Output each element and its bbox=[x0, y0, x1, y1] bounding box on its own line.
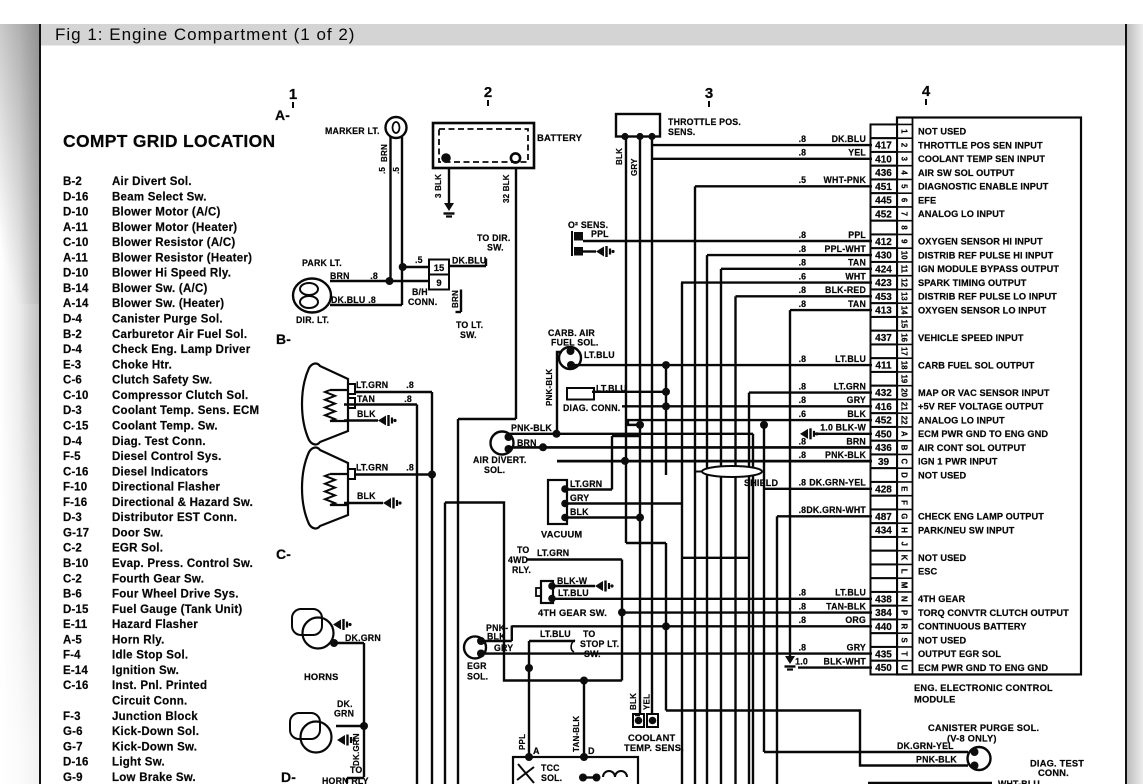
svg-text:TO DIR.: TO DIR. bbox=[477, 233, 511, 243]
svg-text:TO LT.: TO LT. bbox=[456, 320, 483, 330]
svg-text:LT.GRN: LT.GRN bbox=[834, 381, 866, 391]
svg-text:LT.GRN: LT.GRN bbox=[570, 479, 602, 489]
svg-text:C-: C- bbox=[276, 546, 291, 562]
svg-text:CANISTER PURGE SOL.: CANISTER PURGE SOL. bbox=[928, 723, 1039, 733]
svg-text:DK.BLU: DK.BLU bbox=[331, 295, 365, 305]
svg-text:EFE: EFE bbox=[918, 195, 936, 205]
svg-text:451: 451 bbox=[875, 182, 892, 193]
svg-text:13: 13 bbox=[900, 292, 909, 301]
svg-text:PPL: PPL bbox=[848, 230, 866, 240]
svg-text:Blower Motor (Heater): Blower Motor (Heater) bbox=[112, 222, 237, 234]
svg-text:.8: .8 bbox=[799, 601, 806, 611]
svg-text:PARK/NEU SW INPUT: PARK/NEU SW INPUT bbox=[918, 525, 1015, 535]
svg-text:AIR CONT SOL OUTPUT: AIR CONT SOL OUTPUT bbox=[918, 443, 1026, 453]
svg-text:DK.GRN: DK.GRN bbox=[345, 633, 381, 643]
svg-text:DK.GRN-YEL: DK.GRN-YEL bbox=[809, 478, 866, 488]
svg-text:PPL: PPL bbox=[518, 734, 527, 750]
svg-text:F-3: F-3 bbox=[63, 711, 81, 723]
svg-text:DK.GRN-WHT: DK.GRN-WHT bbox=[806, 505, 866, 515]
svg-text:Choke Htr.: Choke Htr. bbox=[112, 359, 172, 371]
svg-text:C-10: C-10 bbox=[63, 390, 89, 402]
svg-text:410: 410 bbox=[875, 154, 892, 165]
svg-text:20: 20 bbox=[900, 388, 909, 397]
svg-text:416: 416 bbox=[875, 402, 892, 413]
svg-text:.8: .8 bbox=[799, 354, 806, 364]
svg-text:Blower Sw. (A/C): Blower Sw. (A/C) bbox=[112, 283, 208, 295]
svg-text:Carburetor Air Fuel Sol.: Carburetor Air Fuel Sol. bbox=[112, 329, 247, 341]
svg-text:B-: B- bbox=[276, 331, 291, 347]
svg-text:MODULE: MODULE bbox=[914, 695, 955, 705]
svg-text:SPARK TIMING OUTPUT: SPARK TIMING OUTPUT bbox=[918, 278, 1027, 288]
svg-text:Low Brake Sw.: Low Brake Sw. bbox=[112, 772, 196, 784]
svg-text:B-14: B-14 bbox=[63, 283, 89, 295]
svg-text:.8: .8 bbox=[799, 285, 806, 295]
svg-text:.8: .8 bbox=[799, 642, 806, 652]
svg-text:A-: A- bbox=[275, 107, 290, 123]
svg-text:Blower Hi Speed Rly.: Blower Hi Speed Rly. bbox=[112, 268, 231, 280]
svg-text:TO: TO bbox=[350, 765, 362, 775]
svg-text:11: 11 bbox=[900, 265, 909, 274]
svg-text:DISTRIB REF PULSE HI INPUT: DISTRIB REF PULSE HI INPUT bbox=[918, 250, 1054, 260]
svg-text:Canister Purge Sol.: Canister Purge Sol. bbox=[112, 314, 223, 326]
svg-text:B-6: B-6 bbox=[63, 589, 82, 601]
svg-text:DK.GRN: DK.GRN bbox=[352, 733, 361, 766]
svg-text:K: K bbox=[900, 555, 909, 561]
svg-text:1.0: 1.0 bbox=[795, 656, 808, 666]
svg-text:CARB FUEL SOL OUTPUT: CARB FUEL SOL OUTPUT bbox=[918, 360, 1035, 370]
svg-text:22: 22 bbox=[900, 416, 909, 425]
svg-text:15: 15 bbox=[900, 319, 909, 328]
svg-text:STOP LT.: STOP LT. bbox=[580, 639, 619, 649]
svg-text:G: G bbox=[900, 513, 909, 519]
svg-text:BLK: BLK bbox=[847, 409, 866, 419]
svg-text:Fig 1: Engine Compartment (1 o: Fig 1: Engine Compartment (1 of 2) bbox=[55, 25, 355, 44]
svg-text:5: 5 bbox=[900, 184, 909, 189]
svg-text:10: 10 bbox=[900, 251, 909, 260]
svg-text:PPL: PPL bbox=[591, 229, 609, 239]
svg-text:6: 6 bbox=[900, 198, 909, 203]
svg-text:9: 9 bbox=[436, 278, 441, 289]
svg-text:GRY: GRY bbox=[630, 158, 639, 176]
svg-text:417: 417 bbox=[875, 141, 892, 152]
svg-text:CONN.: CONN. bbox=[1038, 768, 1069, 778]
svg-text:12: 12 bbox=[900, 278, 909, 287]
svg-text:BLK: BLK bbox=[615, 148, 624, 165]
svg-text:P: P bbox=[900, 610, 909, 615]
svg-text:450: 450 bbox=[875, 429, 892, 440]
svg-text:DK.BLU: DK.BLU bbox=[452, 256, 486, 266]
svg-text:NOT USED: NOT USED bbox=[918, 553, 967, 563]
svg-text:D-: D- bbox=[281, 769, 296, 784]
svg-text:487: 487 bbox=[875, 512, 892, 523]
svg-text:Compressor Clutch Sol.: Compressor Clutch Sol. bbox=[112, 390, 249, 402]
svg-text:32 BLK: 32 BLK bbox=[502, 174, 511, 203]
svg-text:HORN RLY: HORN RLY bbox=[322, 776, 369, 784]
svg-text:TAN: TAN bbox=[848, 258, 866, 268]
svg-text:1: 1 bbox=[289, 86, 297, 103]
svg-text:G-17: G-17 bbox=[63, 527, 89, 539]
svg-text:14: 14 bbox=[900, 306, 909, 315]
svg-text:Coolant Temp. Sw.: Coolant Temp. Sw. bbox=[112, 420, 218, 432]
svg-text:TAN-BLK: TAN-BLK bbox=[572, 716, 581, 752]
svg-text:Blower Resistor (Heater): Blower Resistor (Heater) bbox=[112, 252, 252, 264]
svg-text:CONTINUOUS BATTERY: CONTINUOUS BATTERY bbox=[918, 622, 1026, 632]
svg-text:EGR: EGR bbox=[467, 661, 487, 671]
svg-text:436: 436 bbox=[875, 443, 892, 454]
svg-text:452: 452 bbox=[875, 416, 892, 427]
svg-text:ANALOG LO INPUT: ANALOG LO INPUT bbox=[918, 209, 1005, 219]
svg-text:D-16: D-16 bbox=[63, 191, 89, 203]
svg-text:Check Eng. Lamp Driver: Check Eng. Lamp Driver bbox=[112, 344, 251, 356]
svg-text:.8: .8 bbox=[799, 436, 806, 446]
svg-text:A-5: A-5 bbox=[63, 634, 82, 646]
svg-text:VEHICLE SPEED INPUT: VEHICLE SPEED INPUT bbox=[918, 333, 1024, 343]
svg-text:NOT USED: NOT USED bbox=[918, 635, 967, 645]
svg-text:445: 445 bbox=[875, 196, 892, 207]
svg-text:DIAGNOSTIC ENABLE INPUT: DIAGNOSTIC ENABLE INPUT bbox=[918, 182, 1049, 192]
svg-text:.8: .8 bbox=[799, 381, 806, 391]
svg-text:THROTTLE POS SEN INPUT: THROTTLE POS SEN INPUT bbox=[918, 140, 1043, 150]
svg-text:C-2: C-2 bbox=[63, 573, 82, 585]
svg-text:.8: .8 bbox=[406, 463, 414, 473]
svg-text:17: 17 bbox=[900, 347, 909, 356]
svg-text:LT.BLU: LT.BLU bbox=[558, 588, 589, 598]
svg-text:BLK: BLK bbox=[570, 507, 589, 517]
svg-text:450: 450 bbox=[875, 663, 892, 674]
svg-text:IGN 1 PWR INPUT: IGN 1 PWR INPUT bbox=[918, 457, 998, 467]
svg-text:452: 452 bbox=[875, 209, 892, 220]
svg-text:F-16: F-16 bbox=[63, 497, 87, 509]
svg-text:NOT USED: NOT USED bbox=[918, 470, 967, 480]
svg-text:D-3: D-3 bbox=[63, 405, 82, 417]
svg-text:G-7: G-7 bbox=[63, 741, 83, 753]
svg-text:Evap. Press. Control Sw.: Evap. Press. Control Sw. bbox=[112, 558, 253, 570]
svg-text:BLK-WHT: BLK-WHT bbox=[824, 656, 867, 666]
svg-text:LT.BLU: LT.BLU bbox=[835, 588, 866, 598]
svg-text:.8: .8 bbox=[799, 478, 806, 488]
svg-text:GRY: GRY bbox=[847, 395, 866, 405]
svg-text:F-4: F-4 bbox=[63, 650, 81, 662]
svg-text:.8: .8 bbox=[404, 394, 412, 404]
svg-text:SOL.: SOL. bbox=[541, 773, 562, 783]
svg-text:OXYGEN SENSOR LO INPUT: OXYGEN SENSOR LO INPUT bbox=[918, 305, 1047, 315]
svg-text:M: M bbox=[900, 582, 909, 589]
svg-text:3 BLK: 3 BLK bbox=[434, 174, 443, 198]
svg-text:411: 411 bbox=[875, 361, 892, 372]
svg-text:.8: .8 bbox=[799, 505, 806, 515]
svg-text:.8: .8 bbox=[799, 134, 806, 144]
svg-text:3: 3 bbox=[900, 157, 909, 162]
svg-text:FUEL SOL.: FUEL SOL. bbox=[551, 337, 599, 347]
svg-text:B: B bbox=[900, 445, 909, 451]
svg-text:3: 3 bbox=[705, 85, 713, 102]
svg-text:.8: .8 bbox=[370, 271, 378, 281]
svg-text:SOL.: SOL. bbox=[467, 672, 488, 682]
svg-text:EGR Sol.: EGR Sol. bbox=[112, 543, 163, 555]
svg-text:7: 7 bbox=[900, 212, 909, 216]
svg-text:.8: .8 bbox=[799, 230, 806, 240]
svg-text:N: N bbox=[900, 596, 909, 602]
svg-text:BLK: BLK bbox=[629, 693, 638, 710]
svg-text:B-10: B-10 bbox=[63, 558, 89, 570]
svg-text:BRN: BRN bbox=[380, 144, 389, 162]
svg-text:TAN: TAN bbox=[357, 394, 375, 404]
svg-text:BRN: BRN bbox=[451, 290, 460, 308]
svg-text:E-14: E-14 bbox=[63, 665, 88, 677]
svg-text:440: 440 bbox=[875, 622, 892, 633]
svg-text:YEL: YEL bbox=[643, 694, 652, 710]
svg-text:Inst. Pnl. Printed: Inst. Pnl. Printed bbox=[112, 680, 207, 692]
svg-text:J: J bbox=[900, 542, 909, 546]
svg-text:MAP OR VAC SENSOR INPUT: MAP OR VAC SENSOR INPUT bbox=[918, 388, 1050, 398]
svg-text:8: 8 bbox=[900, 225, 909, 230]
svg-text:423: 423 bbox=[875, 278, 892, 289]
svg-text:NOT USED: NOT USED bbox=[918, 127, 967, 137]
svg-text:4TH GEAR: 4TH GEAR bbox=[918, 594, 966, 604]
svg-text:.8: .8 bbox=[799, 450, 806, 460]
svg-text:A: A bbox=[900, 431, 909, 437]
svg-text:.8: .8 bbox=[799, 148, 806, 158]
svg-text:ECM PWR GND TO ENG GND: ECM PWR GND TO ENG GND bbox=[918, 663, 1048, 673]
svg-text:.8: .8 bbox=[799, 299, 806, 309]
svg-text:A: A bbox=[533, 746, 540, 756]
svg-text:OXYGEN SENSOR HI INPUT: OXYGEN SENSOR HI INPUT bbox=[918, 237, 1043, 247]
svg-text:412: 412 bbox=[875, 237, 892, 248]
svg-text:A-11: A-11 bbox=[63, 252, 88, 264]
svg-text:Ignition Sw.: Ignition Sw. bbox=[112, 665, 179, 677]
svg-text:1.0 BLK-W: 1.0 BLK-W bbox=[820, 423, 866, 433]
svg-text:AIR DIVERT.: AIR DIVERT. bbox=[473, 455, 527, 465]
svg-text:.5: .5 bbox=[392, 167, 401, 174]
svg-text:39: 39 bbox=[878, 457, 890, 468]
svg-text:D-16: D-16 bbox=[63, 757, 89, 769]
svg-text:LT.BLU: LT.BLU bbox=[540, 629, 571, 639]
svg-text:C-16: C-16 bbox=[63, 466, 89, 478]
svg-text:Idle Stop Sol.: Idle Stop Sol. bbox=[112, 650, 188, 662]
svg-text:Hazard Flasher: Hazard Flasher bbox=[112, 619, 198, 631]
svg-text:PARK LT.: PARK LT. bbox=[302, 258, 342, 268]
svg-text:B/H: B/H bbox=[412, 287, 428, 297]
svg-text:CONN.: CONN. bbox=[408, 297, 437, 307]
svg-text:F: F bbox=[900, 500, 909, 505]
svg-text:D: D bbox=[588, 746, 595, 756]
svg-text:.8: .8 bbox=[368, 295, 376, 305]
svg-text:SHIELD: SHIELD bbox=[744, 478, 779, 488]
svg-text:9: 9 bbox=[900, 239, 909, 244]
svg-text:Directional Flasher: Directional Flasher bbox=[112, 482, 221, 494]
svg-text:THROTTLE POS.: THROTTLE POS. bbox=[668, 117, 741, 127]
svg-text:436: 436 bbox=[875, 168, 892, 179]
svg-text:TAN: TAN bbox=[848, 299, 866, 309]
svg-text:.8: .8 bbox=[799, 244, 806, 254]
svg-text:MARKER LT.: MARKER LT. bbox=[325, 126, 380, 136]
svg-text:DISTRIB REF PULSE LO INPUT: DISTRIB REF PULSE LO INPUT bbox=[918, 292, 1057, 302]
svg-text:WHT-PNK: WHT-PNK bbox=[824, 175, 867, 185]
svg-text:LT.BLU: LT.BLU bbox=[835, 354, 866, 364]
svg-text:COOLANT: COOLANT bbox=[628, 733, 675, 743]
svg-text:F-10: F-10 bbox=[63, 482, 87, 494]
svg-text:F-5: F-5 bbox=[63, 451, 81, 463]
svg-text:D-4: D-4 bbox=[63, 344, 82, 356]
svg-text:C-15: C-15 bbox=[63, 420, 89, 432]
svg-text:.8: .8 bbox=[406, 380, 414, 390]
svg-text:Diag. Test Conn.: Diag. Test Conn. bbox=[112, 436, 206, 448]
svg-text:LT.GRN: LT.GRN bbox=[356, 463, 388, 473]
svg-text:Door Sw.: Door Sw. bbox=[112, 527, 163, 539]
svg-text:TO: TO bbox=[517, 545, 529, 555]
svg-text:.5: .5 bbox=[378, 167, 387, 174]
svg-text:18: 18 bbox=[900, 361, 909, 370]
svg-text:H: H bbox=[900, 527, 909, 533]
svg-text:BLK: BLK bbox=[357, 409, 376, 419]
svg-text:1: 1 bbox=[900, 129, 909, 134]
svg-text:BATTERY: BATTERY bbox=[537, 133, 583, 144]
svg-text:DIAG. CONN.: DIAG. CONN. bbox=[563, 403, 620, 413]
svg-text:G-9: G-9 bbox=[63, 772, 83, 784]
svg-text:WHT: WHT bbox=[845, 271, 866, 281]
svg-text:BLK-W: BLK-W bbox=[557, 576, 588, 586]
svg-text:E-11: E-11 bbox=[63, 619, 88, 631]
svg-text:D-4: D-4 bbox=[63, 314, 82, 326]
svg-text:Directional & Hazard Sw.: Directional & Hazard Sw. bbox=[112, 497, 253, 509]
svg-text:E-3: E-3 bbox=[63, 359, 81, 371]
svg-text:GRY: GRY bbox=[570, 493, 589, 503]
svg-text:D-15: D-15 bbox=[63, 604, 89, 616]
svg-text:COMPT GRID LOCATION: COMPT GRID LOCATION bbox=[63, 131, 275, 151]
svg-text:4: 4 bbox=[922, 83, 931, 100]
svg-text:Circuit Conn.: Circuit Conn. bbox=[112, 696, 187, 708]
svg-text:LT.BLU: LT.BLU bbox=[584, 350, 615, 360]
svg-text:U: U bbox=[900, 665, 909, 671]
svg-text:Air Divert Sol.: Air Divert Sol. bbox=[112, 176, 192, 188]
svg-text:D-3: D-3 bbox=[63, 512, 82, 524]
svg-text:G-6: G-6 bbox=[63, 726, 83, 738]
svg-text:434: 434 bbox=[875, 526, 892, 537]
svg-text:VACUUM: VACUUM bbox=[541, 530, 582, 540]
svg-text:4: 4 bbox=[900, 170, 909, 175]
svg-text:WHT-BLU: WHT-BLU bbox=[998, 779, 1040, 784]
svg-text:AIR SW SOL OUTPUT: AIR SW SOL OUTPUT bbox=[918, 168, 1015, 178]
svg-text:Light Sw.: Light Sw. bbox=[112, 757, 165, 769]
svg-text:COOLANT TEMP SEN INPUT: COOLANT TEMP SEN INPUT bbox=[918, 154, 1045, 164]
svg-text:GRY: GRY bbox=[494, 643, 513, 653]
svg-text:438: 438 bbox=[875, 594, 892, 605]
svg-text:19: 19 bbox=[900, 374, 909, 383]
svg-text:Blower Resistor (A/C): Blower Resistor (A/C) bbox=[112, 237, 235, 249]
svg-text:PNK-BLK: PNK-BLK bbox=[511, 423, 552, 433]
svg-text:430: 430 bbox=[875, 251, 892, 262]
svg-text:Distributor EST Conn.: Distributor EST Conn. bbox=[112, 512, 237, 524]
svg-text:.5: .5 bbox=[415, 255, 423, 265]
svg-text:4TH GEAR SW.: 4TH GEAR SW. bbox=[538, 608, 607, 618]
svg-text:T: T bbox=[900, 651, 909, 656]
svg-text:PNK-BLK: PNK-BLK bbox=[916, 755, 957, 765]
svg-text:413: 413 bbox=[875, 306, 892, 317]
svg-text:C-2: C-2 bbox=[63, 543, 82, 555]
svg-text:BLK-RED: BLK-RED bbox=[825, 285, 866, 295]
svg-text:TORQ CONVTR CLUTCH OUTPUT: TORQ CONVTR CLUTCH OUTPUT bbox=[918, 608, 1069, 618]
svg-text:C-10: C-10 bbox=[63, 237, 89, 249]
svg-text:437: 437 bbox=[875, 333, 892, 344]
svg-text:+5V REF VOLTAGE OUTPUT: +5V REF VOLTAGE OUTPUT bbox=[918, 402, 1044, 412]
svg-text:BRN: BRN bbox=[330, 271, 350, 281]
svg-text:ANALOG LO INPUT: ANALOG LO INPUT bbox=[918, 415, 1005, 425]
svg-text:16: 16 bbox=[900, 333, 909, 342]
svg-text:SENS.: SENS. bbox=[668, 127, 695, 137]
svg-text:384: 384 bbox=[875, 608, 892, 619]
svg-text:PPL-WHT: PPL-WHT bbox=[825, 244, 867, 254]
svg-text:SW.: SW. bbox=[584, 649, 601, 659]
svg-text:ESC: ESC bbox=[918, 567, 937, 577]
svg-text:E: E bbox=[900, 486, 909, 491]
svg-text:BRN: BRN bbox=[846, 436, 866, 446]
svg-text:CHECK ENG LAMP OUTPUT: CHECK ENG LAMP OUTPUT bbox=[918, 512, 1044, 522]
svg-text:SW.: SW. bbox=[487, 243, 504, 253]
svg-text:428: 428 bbox=[875, 484, 892, 495]
svg-text:PNK-BLK: PNK-BLK bbox=[545, 369, 554, 406]
svg-text:A-11: A-11 bbox=[63, 222, 88, 234]
svg-text:YEL: YEL bbox=[848, 148, 866, 158]
svg-text:.8: .8 bbox=[799, 615, 806, 625]
svg-text:TCC: TCC bbox=[541, 763, 560, 773]
svg-text:A-14: A-14 bbox=[63, 298, 89, 310]
svg-text:TAN-BLK: TAN-BLK bbox=[826, 601, 866, 611]
svg-text:Kick-Down Sol.: Kick-Down Sol. bbox=[112, 726, 199, 738]
svg-text:Coolant Temp. Sens. ECM: Coolant Temp. Sens. ECM bbox=[112, 405, 259, 417]
svg-text:TO: TO bbox=[583, 629, 595, 639]
svg-text:R: R bbox=[900, 624, 909, 630]
svg-text:HORNS: HORNS bbox=[304, 672, 339, 682]
svg-text:D-10: D-10 bbox=[63, 207, 89, 219]
svg-text:Four Wheel Drive Sys.: Four Wheel Drive Sys. bbox=[112, 589, 239, 601]
svg-text:IGN MODULE BYPASS OUTPUT: IGN MODULE BYPASS OUTPUT bbox=[918, 264, 1059, 274]
svg-text:SW.: SW. bbox=[460, 330, 477, 340]
svg-text:15: 15 bbox=[434, 263, 445, 274]
svg-text:SOL.: SOL. bbox=[484, 465, 505, 475]
svg-text:ORG: ORG bbox=[845, 615, 866, 625]
svg-text:GRN: GRN bbox=[334, 709, 354, 719]
svg-text:B-2: B-2 bbox=[63, 176, 82, 188]
svg-text:B-2: B-2 bbox=[63, 329, 82, 341]
svg-text:OUTPUT EGR SOL: OUTPUT EGR SOL bbox=[918, 649, 1001, 659]
svg-text:DK.BLU: DK.BLU bbox=[832, 134, 866, 144]
svg-text:.8: .8 bbox=[799, 588, 806, 598]
svg-text:Blower Sw. (Heater): Blower Sw. (Heater) bbox=[112, 298, 224, 310]
svg-text:L: L bbox=[900, 569, 909, 574]
svg-text:RLY.: RLY. bbox=[512, 565, 531, 575]
svg-text:.8: .8 bbox=[799, 258, 806, 268]
svg-text:.8: .8 bbox=[799, 395, 806, 405]
svg-text:2: 2 bbox=[900, 143, 909, 148]
svg-text:TEMP. SENS.: TEMP. SENS. bbox=[624, 743, 684, 753]
svg-text:Diesel Indicators: Diesel Indicators bbox=[112, 466, 208, 478]
svg-text:435: 435 bbox=[875, 649, 892, 660]
svg-text:C: C bbox=[900, 459, 909, 465]
svg-text:C-6: C-6 bbox=[63, 375, 82, 387]
svg-text:DIR. LT.: DIR. LT. bbox=[296, 315, 329, 325]
svg-text:21: 21 bbox=[900, 402, 909, 411]
svg-text:Diesel Control Sys.: Diesel Control Sys. bbox=[112, 451, 222, 463]
svg-text:453: 453 bbox=[875, 292, 892, 303]
svg-text:S: S bbox=[900, 637, 909, 642]
svg-text:.5: .5 bbox=[799, 175, 806, 185]
svg-text:GRY: GRY bbox=[847, 642, 866, 652]
svg-text:C-16: C-16 bbox=[63, 680, 89, 692]
svg-text:Clutch Safety Sw.: Clutch Safety Sw. bbox=[112, 375, 212, 387]
svg-text:BLK: BLK bbox=[357, 491, 376, 501]
svg-text:ECM PWR GND TO ENG GND: ECM PWR GND TO ENG GND bbox=[918, 429, 1048, 439]
svg-text:424: 424 bbox=[875, 264, 892, 275]
